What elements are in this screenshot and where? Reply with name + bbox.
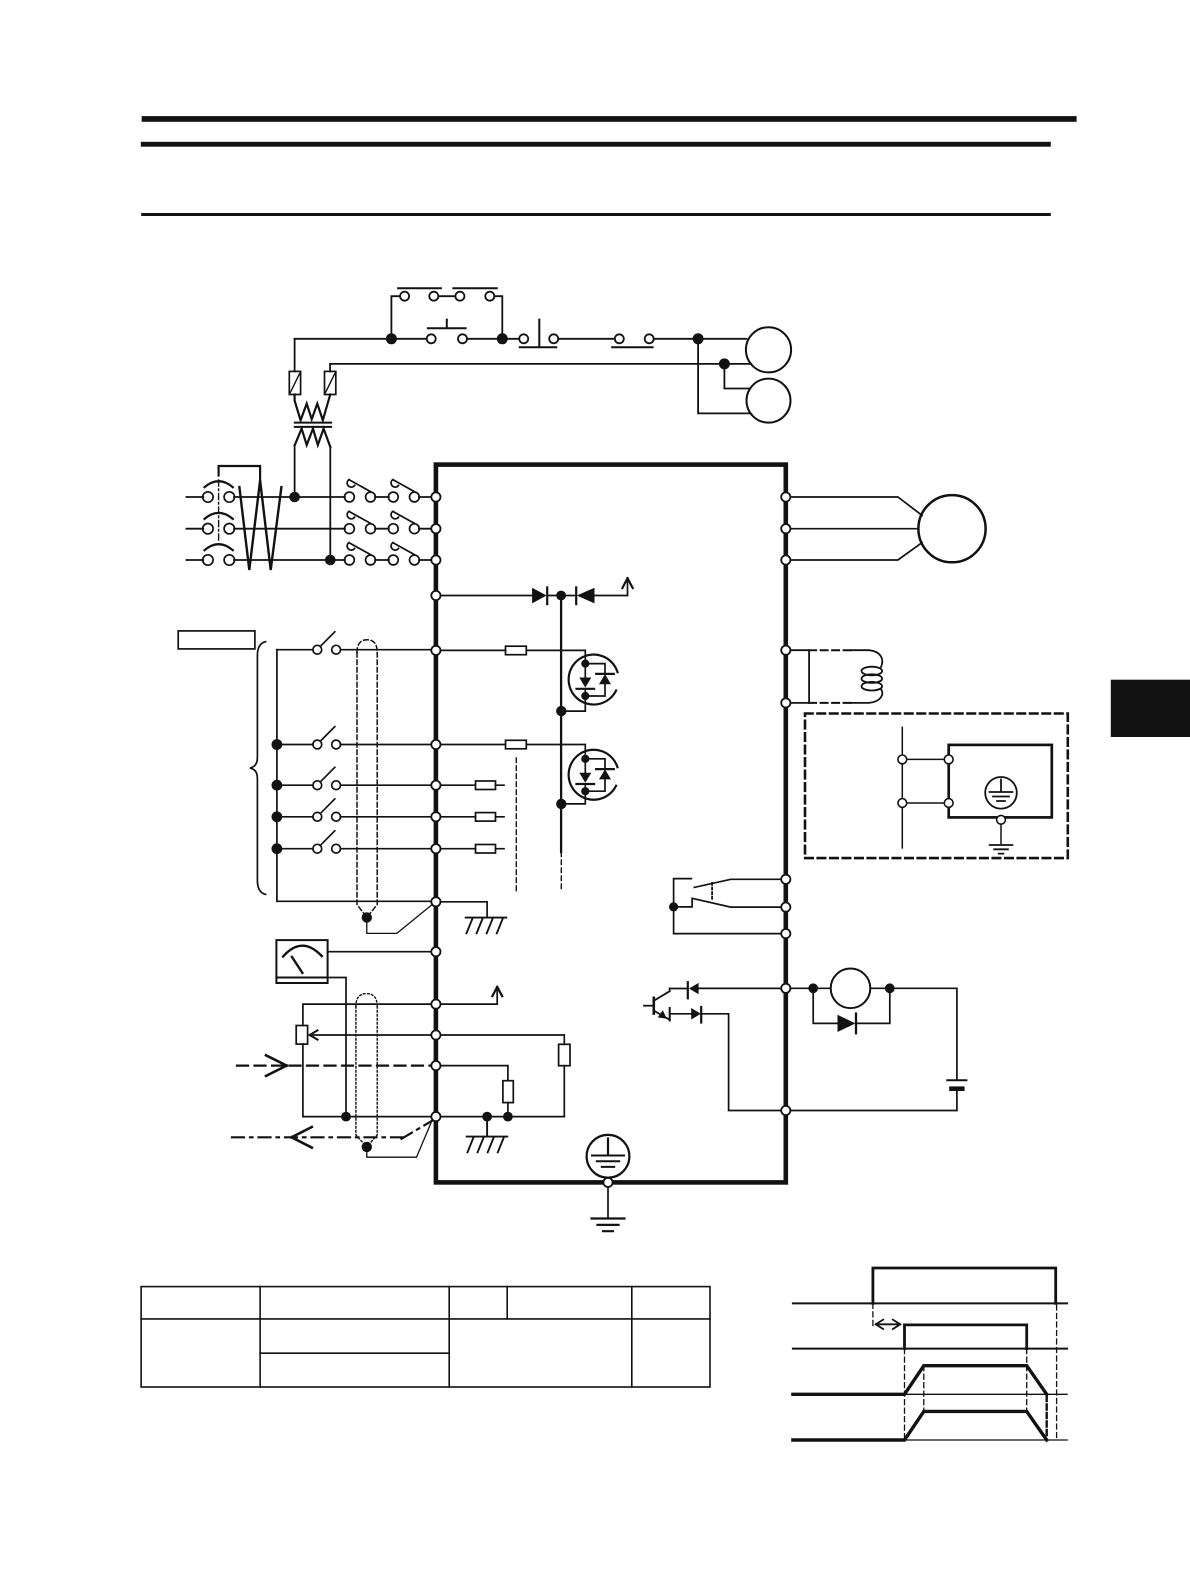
DC reactor coil [851, 650, 882, 703]
wire W phase to motor [790, 543, 922, 561]
frequency meter FM [276, 940, 327, 983]
fuse F1 [289, 339, 300, 395]
arrow up (to braking option) [627, 582, 629, 596]
header rule thick [142, 116, 1077, 122]
contactor MC pole contacts phase R [345, 480, 420, 502]
terminal +2 [781, 646, 790, 655]
option unit dashed box [805, 714, 1068, 859]
terminal R [431, 492, 440, 501]
FS internal wire with up arrow (+V) [441, 990, 498, 1004]
FI internal wire to resistor RA [441, 1066, 508, 1081]
shielded cable oval (digital inputs) [357, 640, 377, 918]
delay double arrow [876, 1320, 901, 1329]
external relay coil circuit [790, 988, 957, 1079]
timing trace 1 baseline [793, 1302, 1067, 1304]
terminal P2 [781, 1106, 790, 1115]
terminal S4 [431, 812, 440, 821]
terminal S [431, 524, 440, 533]
dashed tick below pulse edge [872, 1303, 874, 1327]
contactor MC pole contacts phase S [345, 511, 420, 533]
earth ground symbol [592, 1219, 625, 1232]
output diode lower [670, 1007, 782, 1111]
option unit link wires [902, 759, 948, 803]
terminal MA [781, 875, 790, 884]
FM internal stub [431, 951, 436, 953]
junction dot coil right [885, 983, 895, 993]
terminal earth [603, 1178, 612, 1187]
wire dot D down to lamp 2 [724, 364, 749, 389]
junction dot D [719, 358, 730, 369]
photocoupler PC2 [561, 750, 617, 804]
fault contact common wire [674, 907, 782, 934]
switch S1 [277, 632, 432, 654]
timing trace 4 baseline [793, 1439, 1067, 1441]
wire control line 1 [295, 338, 747, 340]
transformer core [295, 423, 331, 427]
dashed current input arrow (4-20mA) [237, 1055, 431, 1076]
flyback diode [813, 988, 890, 1033]
option unit earth wire [1000, 824, 1002, 843]
junction dot common-RA [503, 1112, 513, 1122]
chassis ground symbol (analog common) [467, 1117, 508, 1153]
terminal SC [431, 897, 440, 906]
timing trace 4 ramp [793, 1411, 1047, 1440]
terminal V [781, 524, 790, 533]
contact MC-aux a-contact 2 [453, 288, 496, 300]
timing trace 3 ramp [793, 1366, 1047, 1395]
inverter main box [436, 465, 786, 1183]
junction dot relay [669, 902, 678, 911]
terminal S1 [431, 646, 440, 655]
terminal FR [431, 1030, 440, 1039]
wire upper branch of self-holding circuit [391, 296, 502, 339]
FR internal wire to resistor RB [441, 1035, 565, 1044]
junction dot C [693, 333, 704, 344]
dashed vertical decel start [1026, 1349, 1028, 1412]
switch S5 [272, 831, 432, 854]
shield ground dot (analog) [362, 1142, 372, 1152]
option unit earth terminal [997, 815, 1006, 824]
dashed vertical trace3 end [1045, 1396, 1047, 1439]
junction dot bus-PC1 [556, 706, 566, 716]
junction dot A [386, 333, 397, 344]
timing trace 2 pulse [905, 1325, 1027, 1349]
MCCB pole 1 [203, 481, 235, 502]
timing trace 2 baseline [793, 1348, 1067, 1350]
pilot lamp 1 [746, 327, 791, 372]
input S1 row wire and resistor [441, 650, 586, 663]
option unit ground symbol [990, 845, 1013, 854]
dashed vertical accel end [923, 1366, 925, 1412]
MCCB pole 3 [203, 544, 235, 565]
wire FS to potentiometer [303, 1004, 432, 1025]
potentiometer (frequency setting) [296, 1026, 307, 1045]
dashed repeat indicator line [515, 758, 517, 891]
contact MC-aux a-contact 1 [398, 288, 441, 300]
potentiometer lower lead [303, 1044, 432, 1117]
meter wire to FM terminal [328, 951, 432, 953]
DC reactor option (dashed leads) [809, 649, 851, 651]
dashed vertical trace1 end [1056, 1305, 1058, 1440]
terminal U [781, 492, 790, 501]
wire V phase to motor [790, 528, 918, 530]
DC reactor terminals bracket [790, 650, 809, 703]
input S4 row wire and resistor [441, 816, 505, 818]
specification table [141, 1287, 710, 1387]
fault contact mechanical link (dotted) [711, 883, 713, 901]
option unit vertical wire [901, 727, 903, 848]
timing trace 3 baseline [793, 1393, 1067, 1395]
wire U phase to motor [790, 497, 922, 515]
junction dot coil left [808, 983, 818, 993]
relay coil [831, 969, 871, 1009]
header rule 3 [141, 213, 1051, 216]
photocoupler PC1 [561, 655, 617, 712]
terminal S2 [431, 740, 440, 749]
terminal MC [781, 929, 790, 938]
junction dot bus-PC2 [556, 799, 566, 809]
protective earth symbol in option unit [985, 777, 1017, 809]
terminal FC [431, 1112, 440, 1121]
junction dot DC bus [556, 591, 566, 601]
external power supply battery [790, 1080, 966, 1110]
shield drain wire to FC [367, 1121, 432, 1157]
header rule 2 [141, 142, 1051, 147]
terminal T [431, 555, 440, 564]
contactor MC pole contacts phase T [345, 543, 420, 565]
wire control line 2 [330, 363, 751, 365]
contact THR b-contact [612, 334, 654, 347]
switch S3 [272, 767, 432, 790]
SC terminal internal ground wire [441, 902, 488, 918]
junction dot common-ground [482, 1112, 492, 1122]
terminal S3 [431, 781, 440, 790]
terminal W [781, 555, 790, 564]
output diode upper [670, 982, 782, 998]
terminal P1 [781, 984, 790, 993]
wire DC bus row [441, 595, 628, 597]
fault relay contact frame [674, 879, 692, 907]
switch S2 [272, 727, 432, 750]
meter wire to analog common [328, 978, 346, 1117]
input S5 row wire and resistor [441, 848, 505, 850]
shield drain wire to SC [367, 905, 432, 933]
fault contact blade [674, 898, 782, 907]
wire phase S line [186, 528, 431, 530]
pushbutton RUN (a-contact) [519, 320, 558, 348]
label box (forward/reverse note) [178, 631, 255, 649]
terminal FI [431, 1061, 440, 1070]
terminal +1 [431, 591, 440, 600]
resistor RA [503, 1081, 513, 1103]
wire secondary lead left to R phase [294, 446, 296, 498]
fuse F2 [325, 364, 336, 395]
common photocoupler bus [560, 596, 562, 853]
pilot lamp 2 [747, 379, 791, 423]
MCCB handle bracket [219, 466, 261, 481]
diode D1 [532, 587, 547, 604]
input common bus [277, 650, 432, 902]
terminal FS [431, 1000, 440, 1009]
junction dot B [497, 333, 508, 344]
transformer T secondary winding [295, 429, 331, 447]
pushbutton STOP (b-contact) [427, 320, 467, 344]
timing trace 1 pulse [873, 1268, 1056, 1303]
resistor RB [559, 1044, 570, 1065]
terminal S5 [431, 844, 440, 853]
junction dot meter-common [341, 1112, 351, 1122]
dashed vertical t2 start [904, 1349, 906, 1440]
chassis ground symbol (SC) [466, 918, 507, 934]
input S2 row wire and resistor [441, 745, 586, 759]
junction dot on R phase [289, 492, 300, 503]
photocoupler output transistor [644, 989, 670, 1021]
wire dot C down to lamp 2 [698, 339, 750, 414]
motor M [918, 495, 985, 562]
MCCB linkage dash-dot line [218, 480, 220, 543]
analog common internal wire [441, 1116, 565, 1118]
shielded cable oval (analog input) [356, 994, 377, 1147]
shield ground dot [362, 912, 372, 922]
switch S4 [272, 799, 432, 822]
MCCB pole 2 [203, 513, 235, 534]
dashed continuation of bus [560, 852, 562, 891]
terminal MB [781, 903, 790, 912]
wire secondary lead right to T phase [329, 447, 331, 560]
wiper arrow wire FR [313, 1034, 431, 1036]
protective earth circle symbol [587, 1135, 630, 1178]
terminal FM [431, 947, 440, 956]
dashed analog monitor arrow (0-10V) [232, 1120, 434, 1148]
terminal +1b [781, 698, 790, 707]
wire phase T line [186, 559, 431, 561]
option unit inner box [949, 745, 1052, 818]
MCCB trip element zigzag [239, 480, 281, 570]
earth wire below box [607, 1187, 609, 1217]
page edge tab [1111, 680, 1190, 737]
fault contact NO side [694, 879, 781, 887]
diode D2 (reversed) [576, 587, 594, 604]
grouping brace [250, 642, 266, 895]
option terminal circles [898, 755, 953, 807]
junction dot on T phase [325, 555, 336, 566]
wire phase R line [186, 496, 431, 498]
transformer T primary winding [295, 395, 331, 421]
input S3 row wire and resistor [441, 784, 505, 786]
